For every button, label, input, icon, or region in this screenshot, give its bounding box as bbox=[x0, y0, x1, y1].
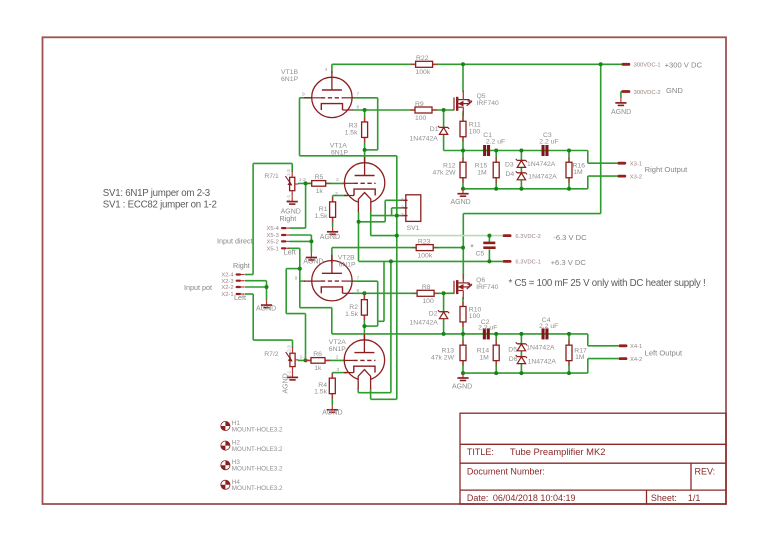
svg-text:8: 8 bbox=[357, 288, 360, 294]
svg-text:1: 1 bbox=[401, 197, 404, 203]
svg-text:100: 100 bbox=[469, 128, 481, 135]
svg-text:D3: D3 bbox=[505, 161, 514, 168]
svg-text:6N1P: 6N1P bbox=[339, 262, 356, 269]
svg-text:1-3: 1-3 bbox=[286, 169, 291, 176]
svg-text:1k: 1k bbox=[314, 365, 322, 372]
svg-text:9: 9 bbox=[295, 276, 298, 282]
svg-text:VT1B: VT1B bbox=[281, 69, 298, 76]
svg-text:R6: R6 bbox=[313, 351, 322, 358]
svg-text:1N4742A: 1N4742A bbox=[528, 174, 557, 181]
svg-text:X2-1: X2-1 bbox=[221, 292, 233, 298]
svg-text:AGND: AGND bbox=[322, 410, 342, 417]
svg-text:D6: D6 bbox=[509, 356, 518, 363]
svg-text:IRF740: IRF740 bbox=[476, 284, 499, 291]
svg-text:SV1 : ECC82 jumper on 1-2: SV1 : ECC82 jumper on 1-2 bbox=[103, 199, 217, 210]
svg-text:1N4742A: 1N4742A bbox=[528, 358, 557, 365]
svg-text:X2-2: X2-2 bbox=[221, 285, 233, 291]
svg-text:1.5k: 1.5k bbox=[345, 130, 358, 137]
svg-text:8: 8 bbox=[357, 105, 360, 111]
svg-text:6.3VDC-1: 6.3VDC-1 bbox=[515, 260, 540, 266]
svg-text:AGND: AGND bbox=[452, 384, 472, 391]
svg-text:1.5k: 1.5k bbox=[345, 311, 358, 318]
svg-text:6N1P: 6N1P bbox=[281, 76, 298, 83]
svg-text:1N4742A: 1N4742A bbox=[410, 136, 439, 143]
svg-text:R9: R9 bbox=[415, 101, 424, 108]
svg-text:AGND: AGND bbox=[256, 306, 276, 313]
svg-text:TITLE:: TITLE: bbox=[467, 447, 494, 457]
svg-text:MOUNT-HOLE3.2: MOUNT-HOLE3.2 bbox=[232, 426, 283, 433]
svg-text:X4-1: X4-1 bbox=[630, 344, 642, 350]
svg-text:R22: R22 bbox=[416, 55, 429, 62]
svg-text:X5-4: X5-4 bbox=[267, 226, 280, 232]
svg-text:6.3VDC-2: 6.3VDC-2 bbox=[515, 234, 540, 240]
svg-text:REV:: REV: bbox=[695, 467, 716, 477]
svg-text:R2: R2 bbox=[349, 304, 358, 311]
svg-text:100k: 100k bbox=[416, 69, 431, 76]
svg-text:Input pot: Input pot bbox=[184, 283, 212, 292]
svg-text:MOUNT-HOLE3.2: MOUNT-HOLE3.2 bbox=[232, 485, 283, 492]
svg-text:2-2: 2-2 bbox=[300, 355, 307, 361]
svg-text:C5: C5 bbox=[476, 251, 485, 258]
svg-text:Right: Right bbox=[280, 214, 297, 223]
svg-text:X2-4: X2-4 bbox=[221, 273, 234, 279]
svg-text:R8: R8 bbox=[422, 284, 431, 291]
svg-text:100k: 100k bbox=[418, 253, 433, 260]
svg-text:6N1P: 6N1P bbox=[331, 149, 348, 156]
svg-text:R1: R1 bbox=[319, 206, 328, 213]
svg-text:R23: R23 bbox=[418, 238, 431, 245]
svg-text:100: 100 bbox=[422, 298, 434, 305]
svg-text:100: 100 bbox=[415, 115, 427, 122]
svg-text:VT1A: VT1A bbox=[330, 142, 347, 149]
svg-text:X5-2: X5-2 bbox=[267, 240, 279, 246]
svg-text:Right Output: Right Output bbox=[645, 165, 689, 174]
svg-text:AGND: AGND bbox=[451, 199, 471, 206]
svg-text:* C5 = 100 mF 25 V only with D: * C5 = 100 mF 25 V only with DC heater s… bbox=[509, 278, 706, 289]
svg-text:D4: D4 bbox=[506, 171, 515, 178]
svg-text:1N4742A: 1N4742A bbox=[526, 345, 555, 352]
svg-text:1M: 1M bbox=[479, 354, 489, 361]
svg-text:Sheet:: Sheet: bbox=[651, 493, 677, 503]
svg-text:3: 3 bbox=[401, 212, 404, 218]
svg-text:IRF740: IRF740 bbox=[477, 100, 500, 107]
svg-text:SV1: 6N1P jumper om 2-3: SV1: 6N1P jumper om 2-3 bbox=[103, 188, 210, 199]
svg-text:1-2: 1-2 bbox=[299, 177, 306, 183]
svg-text:GND: GND bbox=[666, 86, 683, 95]
svg-text:4: 4 bbox=[325, 67, 328, 73]
svg-text:100: 100 bbox=[469, 313, 481, 320]
svg-text:1N4742A: 1N4742A bbox=[527, 161, 556, 168]
svg-text:Left: Left bbox=[234, 293, 246, 302]
svg-text:Left Output: Left Output bbox=[645, 348, 683, 357]
svg-text:VT2A: VT2A bbox=[329, 339, 346, 346]
svg-text:D2: D2 bbox=[429, 311, 438, 318]
svg-text:3: 3 bbox=[335, 191, 338, 197]
svg-text:1k: 1k bbox=[316, 188, 324, 195]
svg-text:47k 2W: 47k 2W bbox=[431, 354, 455, 361]
svg-text:Q5: Q5 bbox=[477, 93, 486, 100]
svg-text:AGND: AGND bbox=[611, 109, 631, 116]
svg-text:X5-3: X5-3 bbox=[267, 233, 279, 239]
svg-text:R14: R14 bbox=[477, 347, 490, 354]
svg-text:MOUNT-HOLE3.2: MOUNT-HOLE3.2 bbox=[232, 446, 283, 453]
svg-text:R13: R13 bbox=[442, 347, 455, 354]
svg-text:D5: D5 bbox=[508, 347, 517, 354]
svg-text:AGND: AGND bbox=[303, 259, 323, 266]
svg-text:2: 2 bbox=[336, 177, 339, 183]
svg-text:300VDC-2: 300VDC-2 bbox=[634, 90, 661, 96]
svg-text:3: 3 bbox=[337, 367, 340, 373]
svg-text:*: * bbox=[470, 242, 474, 252]
svg-text:2: 2 bbox=[336, 355, 339, 361]
svg-text:1-1: 1-1 bbox=[286, 194, 291, 201]
svg-text:D1: D1 bbox=[430, 126, 439, 133]
svg-text:R7/2: R7/2 bbox=[264, 351, 279, 358]
svg-text:-6.3 V DC: -6.3 V DC bbox=[553, 233, 587, 242]
svg-text:R7/1: R7/1 bbox=[264, 173, 279, 180]
svg-text:Tube Preamplifier MK2: Tube Preamplifier MK2 bbox=[510, 446, 606, 457]
svg-text:47k 2W: 47k 2W bbox=[432, 170, 456, 177]
svg-text:+300 V DC: +300 V DC bbox=[665, 60, 703, 69]
svg-text:300VDC-1: 300VDC-1 bbox=[634, 63, 661, 69]
svg-text:X3-2: X3-2 bbox=[630, 174, 642, 180]
svg-text:Left: Left bbox=[284, 248, 296, 257]
svg-text:1/1: 1/1 bbox=[688, 493, 701, 503]
svg-text:1.5k: 1.5k bbox=[314, 388, 327, 395]
svg-text:X2-3: X2-3 bbox=[221, 279, 233, 285]
svg-text:X3-1: X3-1 bbox=[630, 161, 642, 167]
svg-text:2.2 uF: 2.2 uF bbox=[478, 324, 497, 331]
svg-text:X4-2: X4-2 bbox=[630, 357, 642, 363]
svg-text:R3: R3 bbox=[349, 122, 358, 129]
svg-text:MOUNT-HOLE3.2: MOUNT-HOLE3.2 bbox=[232, 466, 283, 473]
svg-text:AGND: AGND bbox=[0, 0, 20, 2]
svg-text:1N4742A: 1N4742A bbox=[410, 320, 439, 327]
svg-text:1.5k: 1.5k bbox=[315, 213, 328, 220]
svg-text:9: 9 bbox=[302, 91, 305, 97]
svg-text:VT2B: VT2B bbox=[338, 255, 355, 262]
svg-text:R5: R5 bbox=[315, 174, 324, 181]
svg-text:1M: 1M bbox=[573, 169, 583, 176]
svg-text:7: 7 bbox=[357, 91, 360, 97]
svg-text:SV1: SV1 bbox=[407, 225, 420, 232]
svg-text:06/04/2018 10:04:19: 06/04/2018 10:04:19 bbox=[493, 493, 576, 503]
svg-text:X5-1: X5-1 bbox=[267, 246, 279, 252]
svg-text:+6.3 V DC: +6.3 V DC bbox=[551, 258, 587, 267]
svg-text:2-3: 2-3 bbox=[286, 345, 291, 352]
svg-text:AGND: AGND bbox=[320, 234, 340, 241]
svg-text:Document Number:: Document Number: bbox=[467, 467, 545, 477]
svg-text:AGND: AGND bbox=[283, 373, 290, 393]
svg-text:1M: 1M bbox=[477, 170, 487, 177]
svg-text:Input direct: Input direct bbox=[217, 236, 253, 245]
svg-text:7: 7 bbox=[357, 276, 360, 282]
svg-text:2: 2 bbox=[401, 205, 404, 211]
svg-text:2.2 uF: 2.2 uF bbox=[539, 138, 558, 145]
svg-text:2.2 uF: 2.2 uF bbox=[486, 138, 505, 145]
svg-text:2.2 uF: 2.2 uF bbox=[539, 323, 558, 330]
svg-text:Right: Right bbox=[233, 261, 250, 270]
svg-text:1M: 1M bbox=[575, 354, 585, 361]
svg-text:R11: R11 bbox=[469, 121, 481, 128]
svg-text:Date:: Date: bbox=[467, 493, 489, 503]
svg-text:6N1P: 6N1P bbox=[329, 346, 346, 353]
svg-text:Q6: Q6 bbox=[476, 277, 485, 284]
